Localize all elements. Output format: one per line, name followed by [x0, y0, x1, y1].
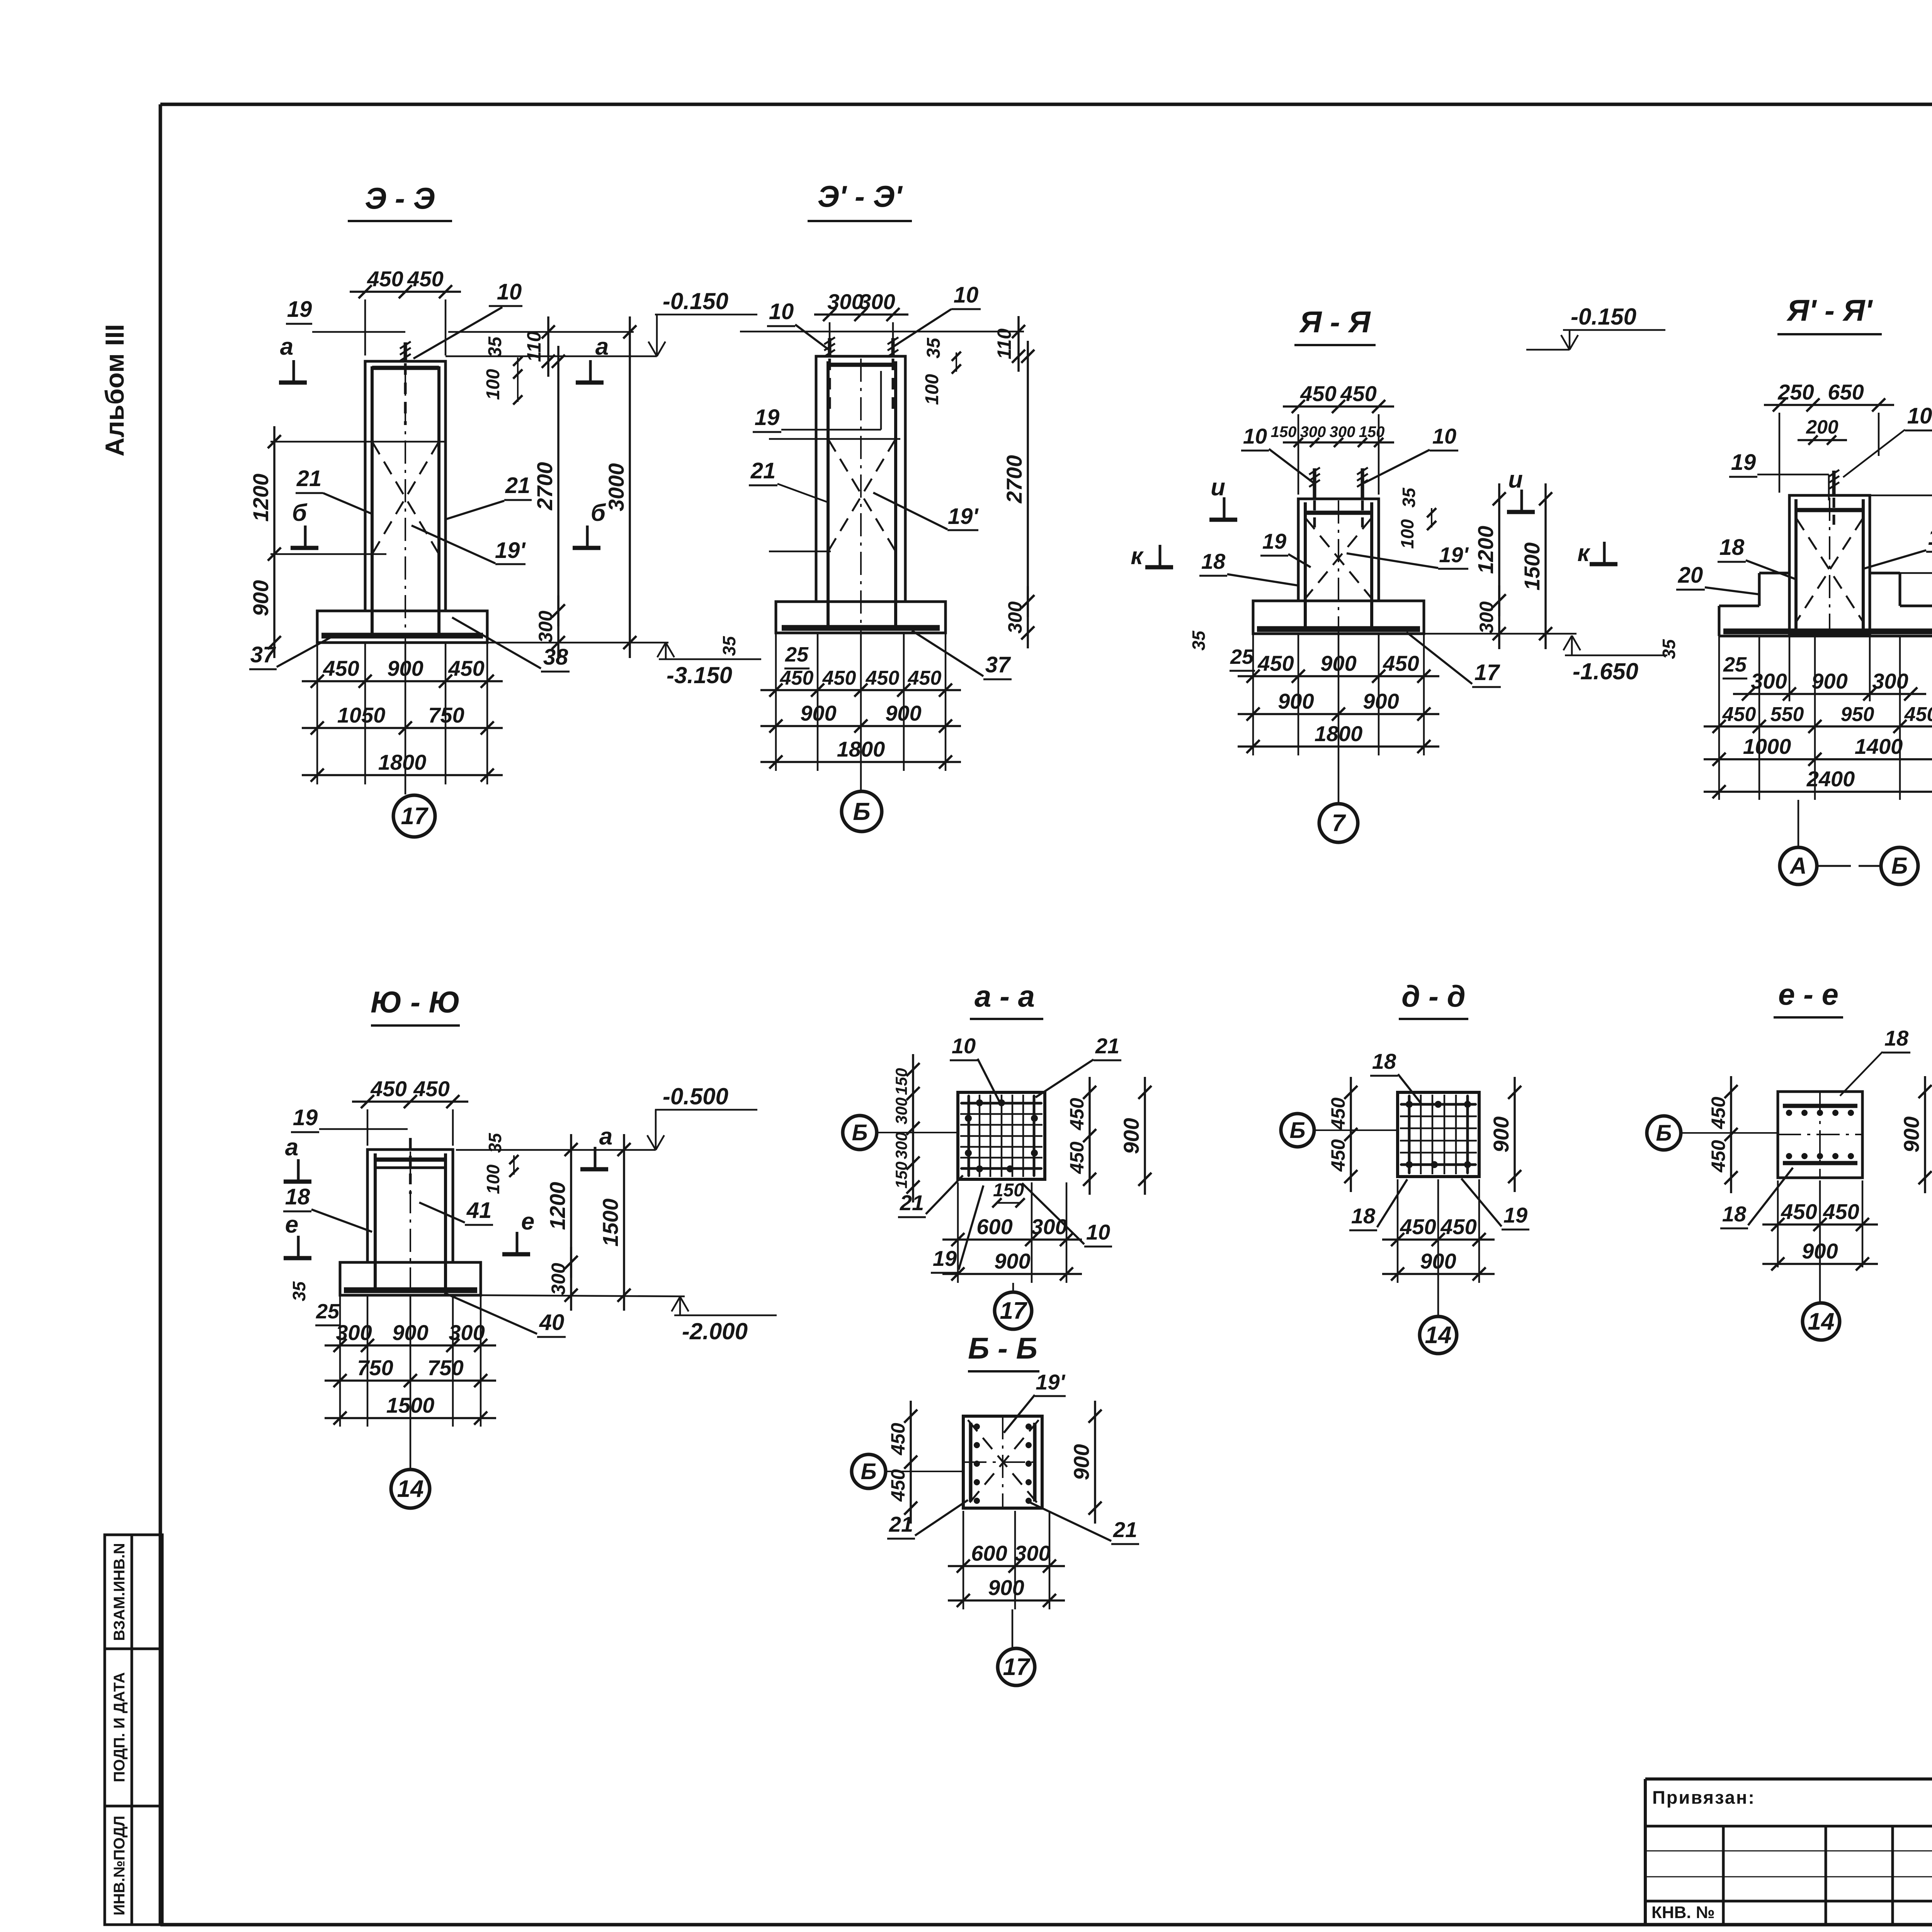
svg-text:17: 17 — [1000, 1298, 1027, 1324]
svg-text:Ю - Ю: Ю - Ю — [371, 985, 460, 1019]
svg-text:ИНВ.№ПОДЛ: ИНВ.№ПОДЛ — [111, 1816, 128, 1915]
svg-text:Б: Б — [1891, 853, 1908, 879]
svg-text:450: 450 — [1823, 1199, 1859, 1224]
svg-text:900: 900 — [1278, 689, 1314, 713]
svg-text:40: 40 — [539, 1310, 565, 1335]
svg-text:900: 900 — [1420, 1249, 1456, 1273]
svg-text:600: 600 — [976, 1214, 1012, 1239]
svg-text:1800: 1800 — [837, 737, 885, 761]
svg-text:900: 900 — [988, 1575, 1024, 1600]
svg-text:25: 25 — [1723, 653, 1747, 676]
svg-text:10: 10 — [1243, 424, 1267, 448]
svg-text:41: 41 — [466, 1198, 492, 1223]
svg-text:1800: 1800 — [378, 750, 427, 774]
svg-text:900: 900 — [248, 580, 273, 616]
svg-text:300: 300 — [859, 289, 895, 314]
svg-text:300: 300 — [827, 289, 863, 314]
svg-text:300: 300 — [1476, 601, 1497, 634]
svg-text:б: б — [591, 500, 606, 526]
svg-text:110: 110 — [523, 331, 545, 362]
svg-text:1200: 1200 — [248, 474, 273, 522]
svg-text:21: 21 — [889, 1512, 913, 1536]
svg-text:200: 200 — [1806, 416, 1838, 438]
svg-text:1500: 1500 — [1520, 543, 1544, 591]
svg-text:1200: 1200 — [1473, 526, 1498, 574]
svg-text:250: 250 — [1777, 380, 1814, 404]
svg-text:550: 550 — [1770, 703, 1804, 726]
svg-text:10: 10 — [769, 299, 794, 324]
svg-text:10: 10 — [497, 279, 522, 304]
svg-text:Б: Б — [1289, 1118, 1305, 1143]
svg-text:19: 19 — [933, 1246, 957, 1270]
svg-text:35: 35 — [719, 636, 739, 656]
svg-text:300: 300 — [449, 1320, 485, 1345]
svg-text:Я' - Я': Я' - Я' — [1786, 293, 1873, 327]
svg-text:450: 450 — [448, 656, 484, 680]
svg-text:18: 18 — [1372, 1049, 1396, 1073]
svg-text:1400: 1400 — [1855, 734, 1903, 759]
svg-text:450: 450 — [370, 1077, 406, 1101]
svg-text:21: 21 — [505, 473, 531, 498]
svg-text:19': 19' — [495, 538, 526, 563]
svg-text:25: 25 — [316, 1300, 340, 1323]
svg-text:А: А — [1789, 853, 1806, 879]
svg-text:300: 300 — [1330, 423, 1355, 440]
svg-text:900: 900 — [1489, 1116, 1513, 1152]
svg-text:900: 900 — [885, 701, 921, 725]
svg-text:14: 14 — [1425, 1322, 1452, 1349]
svg-text:25: 25 — [785, 643, 809, 666]
svg-text:и: и — [1211, 474, 1225, 501]
svg-text:19: 19 — [1262, 529, 1286, 553]
svg-text:450: 450 — [1904, 703, 1932, 726]
svg-text:18: 18 — [1201, 549, 1226, 573]
svg-text:450: 450 — [413, 1077, 449, 1101]
svg-text:-2.000: -2.000 — [682, 1318, 748, 1344]
svg-text:450: 450 — [407, 267, 443, 291]
svg-text:-3.150: -3.150 — [667, 662, 732, 688]
svg-text:35: 35 — [1399, 487, 1419, 508]
svg-text:е: е — [285, 1211, 298, 1238]
svg-text:450: 450 — [866, 667, 900, 689]
svg-text:17: 17 — [1475, 660, 1500, 685]
svg-text:750: 750 — [428, 703, 464, 727]
svg-text:18: 18 — [1884, 1026, 1909, 1050]
svg-text:150: 150 — [993, 1180, 1024, 1201]
svg-text:18: 18 — [285, 1184, 310, 1209]
svg-text:18: 18 — [1351, 1204, 1376, 1228]
svg-text:а: а — [280, 333, 293, 360]
svg-text:110: 110 — [993, 328, 1015, 359]
svg-text:450: 450 — [1340, 381, 1376, 406]
svg-text:17: 17 — [1003, 1654, 1031, 1680]
svg-text:10: 10 — [1086, 1220, 1110, 1244]
svg-text:10: 10 — [954, 282, 979, 308]
svg-text:300: 300 — [1751, 669, 1787, 693]
svg-text:900: 900 — [392, 1320, 428, 1345]
svg-text:900: 900 — [1119, 1118, 1143, 1154]
svg-text:450: 450 — [1708, 1097, 1729, 1129]
svg-text:Б: Б — [861, 1459, 876, 1484]
svg-text:19': 19' — [1036, 1370, 1065, 1394]
svg-text:21: 21 — [296, 466, 322, 491]
svg-text:450: 450 — [1781, 1199, 1817, 1224]
svg-text:900: 900 — [1069, 1444, 1094, 1480]
svg-text:100: 100 — [922, 374, 942, 405]
svg-text:3000: 3000 — [604, 463, 628, 512]
svg-text:1050: 1050 — [337, 703, 386, 727]
svg-text:900: 900 — [1802, 1239, 1838, 1263]
svg-text:450: 450 — [1400, 1214, 1436, 1239]
svg-text:Альбом III: Альбом III — [100, 324, 129, 457]
svg-text:1500: 1500 — [386, 1393, 435, 1417]
svg-text:300: 300 — [1031, 1214, 1067, 1239]
svg-text:35: 35 — [289, 1281, 309, 1301]
svg-text:-0.500: -0.500 — [663, 1083, 728, 1109]
svg-text:450: 450 — [1327, 1139, 1349, 1172]
svg-text:19: 19 — [1503, 1203, 1527, 1227]
svg-text:1200: 1200 — [545, 1182, 570, 1230]
svg-text:300: 300 — [548, 1263, 569, 1295]
svg-text:35: 35 — [485, 336, 505, 357]
svg-text:450: 450 — [1300, 381, 1336, 406]
svg-text:450: 450 — [1257, 651, 1294, 675]
svg-text:19: 19 — [755, 405, 780, 430]
svg-text:450: 450 — [1383, 651, 1419, 675]
svg-text:7: 7 — [1332, 810, 1346, 837]
svg-text:17: 17 — [401, 803, 429, 830]
svg-text:950: 950 — [1841, 703, 1874, 726]
svg-text:-1.650: -1.650 — [1573, 658, 1638, 684]
svg-text:450: 450 — [887, 1469, 909, 1502]
svg-text:25: 25 — [1230, 645, 1254, 668]
svg-text:100: 100 — [483, 1164, 503, 1194]
svg-text:900: 900 — [1363, 689, 1399, 713]
svg-text:КНВ. №: КНВ. № — [1651, 1903, 1715, 1922]
svg-text:19': 19' — [948, 504, 979, 529]
svg-text:35: 35 — [1659, 639, 1679, 659]
svg-text:450: 450 — [908, 667, 942, 689]
svg-text:300: 300 — [892, 1132, 910, 1159]
svg-text:Э - Э: Э - Э — [365, 181, 435, 215]
svg-text:и: и — [1508, 466, 1523, 493]
svg-text:1000: 1000 — [1743, 734, 1791, 759]
svg-text:300: 300 — [892, 1097, 910, 1124]
svg-text:1800: 1800 — [1315, 721, 1363, 746]
svg-text:900: 900 — [1320, 651, 1356, 675]
svg-text:к: к — [1577, 540, 1590, 566]
svg-text:а - а: а - а — [975, 979, 1035, 1013]
svg-text:100: 100 — [483, 369, 503, 400]
svg-text:900: 900 — [1899, 1116, 1923, 1152]
svg-text:650: 650 — [1828, 380, 1864, 404]
svg-text:750: 750 — [357, 1355, 393, 1380]
svg-text:21: 21 — [900, 1190, 924, 1215]
svg-text:19: 19 — [287, 297, 312, 322]
svg-text:Я - Я: Я - Я — [1299, 305, 1371, 339]
svg-text:2400: 2400 — [1806, 767, 1855, 791]
svg-text:300: 300 — [336, 1320, 372, 1345]
svg-text:100: 100 — [1397, 519, 1417, 549]
svg-text:19: 19 — [1731, 450, 1756, 475]
svg-text:300: 300 — [1872, 669, 1908, 693]
svg-text:18: 18 — [1719, 535, 1745, 560]
svg-text:450: 450 — [1066, 1098, 1088, 1131]
svg-text:35: 35 — [923, 337, 944, 359]
svg-text:2700: 2700 — [532, 462, 557, 511]
svg-text:150: 150 — [892, 1068, 910, 1095]
svg-text:10: 10 — [1907, 403, 1932, 429]
svg-text:150: 150 — [1271, 423, 1297, 440]
svg-text:38: 38 — [543, 645, 568, 670]
svg-text:а: а — [285, 1134, 298, 1161]
svg-text:450: 450 — [822, 667, 856, 689]
svg-text:19: 19 — [293, 1105, 318, 1130]
svg-text:450: 450 — [780, 667, 814, 689]
svg-text:а: а — [599, 1123, 612, 1150]
svg-text:900: 900 — [1811, 669, 1847, 693]
svg-text:Привязан:: Привязан: — [1652, 1787, 1755, 1808]
svg-text:Э' - Э': Э' - Э' — [818, 179, 903, 213]
svg-text:Б: Б — [852, 1120, 867, 1145]
svg-text:900: 900 — [994, 1249, 1030, 1273]
svg-text:21: 21 — [750, 458, 776, 483]
svg-text:37: 37 — [250, 642, 276, 667]
svg-text:20: 20 — [1678, 563, 1703, 588]
svg-text:35: 35 — [1189, 630, 1209, 651]
svg-text:е: е — [521, 1208, 534, 1235]
svg-text:300: 300 — [1300, 423, 1326, 440]
svg-text:1500: 1500 — [598, 1199, 622, 1247]
svg-text:к: к — [1131, 543, 1144, 570]
svg-text:450: 450 — [323, 656, 359, 680]
svg-text:750: 750 — [427, 1355, 463, 1380]
svg-text:Б - Б: Б - Б — [968, 1331, 1037, 1365]
svg-text:-0.150: -0.150 — [1571, 304, 1636, 330]
svg-text:900: 900 — [800, 701, 836, 725]
svg-text:450: 450 — [1327, 1097, 1349, 1130]
svg-text:14: 14 — [397, 1476, 424, 1502]
svg-text:б: б — [292, 500, 308, 526]
svg-text:21: 21 — [1113, 1517, 1137, 1542]
svg-text:19': 19' — [1439, 543, 1469, 567]
svg-text:Б: Б — [853, 798, 870, 825]
svg-text:е - е: е - е — [1778, 977, 1838, 1011]
svg-text:21: 21 — [1095, 1034, 1119, 1058]
svg-text:300: 300 — [1014, 1541, 1050, 1565]
svg-text:450: 450 — [1708, 1140, 1729, 1173]
svg-text:300: 300 — [1004, 601, 1026, 634]
svg-text:Б: Б — [1656, 1121, 1672, 1146]
svg-text:14: 14 — [1808, 1308, 1835, 1335]
svg-text:300: 300 — [535, 611, 556, 643]
svg-text:900: 900 — [387, 656, 423, 680]
svg-text:150: 150 — [1359, 423, 1385, 440]
svg-text:150: 150 — [892, 1162, 910, 1189]
svg-text:ВЗАМ.ИНВ.N: ВЗАМ.ИНВ.N — [111, 1543, 128, 1641]
svg-text:-0.150: -0.150 — [663, 288, 728, 314]
svg-text:ПОДП. И ДАТА: ПОДП. И ДАТА — [111, 1672, 128, 1782]
svg-text:д - д: д - д — [1401, 979, 1466, 1013]
svg-text:18: 18 — [1722, 1202, 1747, 1226]
svg-text:10: 10 — [1432, 424, 1456, 448]
svg-text:450: 450 — [887, 1423, 909, 1456]
svg-text:10: 10 — [952, 1034, 976, 1058]
svg-text:18: 18 — [1928, 525, 1932, 550]
svg-text:450: 450 — [1066, 1141, 1088, 1174]
svg-text:37: 37 — [985, 652, 1011, 677]
svg-text:2700: 2700 — [1002, 455, 1026, 504]
svg-text:450: 450 — [1440, 1214, 1476, 1239]
svg-text:450: 450 — [367, 267, 403, 291]
svg-text:600: 600 — [971, 1541, 1007, 1565]
svg-text:450: 450 — [1722, 703, 1756, 726]
